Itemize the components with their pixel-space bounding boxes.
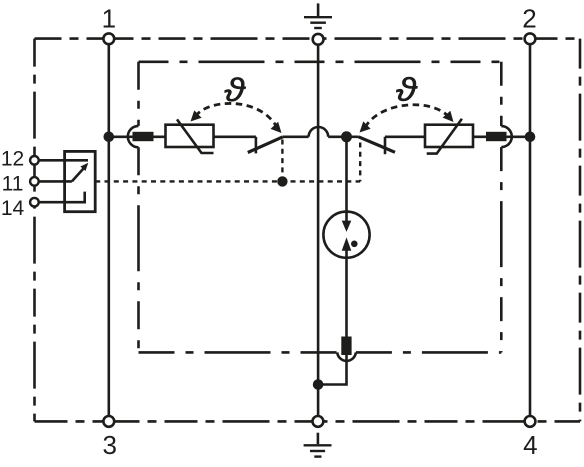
- wire: terminal 12 lead: [39, 159, 88, 162]
- wire: centre earth line from top terminal to bottom terminal: [317, 44, 320, 421]
- thermal fuse element right (black rectangle): [486, 132, 507, 141]
- wire: gas discharge tube branch, node down to circle: [345, 137, 348, 226]
- theta arc right (dashed): [365, 105, 449, 128]
- wire: terminal 2 to terminal 4 vertical line: [529, 39, 532, 421]
- gas discharge tube gas-filled dot: [351, 241, 358, 248]
- thermal disconnector switch right: blade: [359, 137, 396, 153]
- gas discharge tube upper electrode arrow: [342, 221, 352, 232]
- node: junction phase wire / gas discharge tube branch: [341, 131, 352, 142]
- theta arc left (dashed): [196, 103, 277, 126]
- svg-text:14: 14: [1, 197, 25, 220]
- varistor RV2 diagonal stroke: [427, 119, 462, 154]
- arrowhead: right arc onto right blade: [356, 121, 371, 136]
- node: junction earth line / gas discharge tube branch: [313, 379, 324, 390]
- gas discharge tube / spark gap circle: [323, 212, 369, 258]
- terminal 4 circle: [525, 416, 536, 427]
- bottom earth symbol below frame: [317, 433, 320, 445]
- node: junction of dashed sensing lines: [277, 176, 287, 186]
- wire: right border line hop around phase wire: [501, 126, 512, 147]
- wire: hop of phase wire over centre earth line: [309, 127, 329, 137]
- terminal 3 circle: [103, 416, 114, 427]
- top earth terminal circle: [313, 34, 324, 45]
- top earth symbol above frame: [317, 3, 320, 16]
- svg-text:3: 3: [102, 430, 116, 460]
- protection module boundary (inner dash-dot box): [139, 62, 502, 353]
- terminal 2 circle: [525, 33, 536, 44]
- svg-text:4: 4: [523, 430, 537, 460]
- node: junction terminal 1 line / phase wire: [104, 132, 115, 143]
- wire: bottom border line hop around earth branch wire: [337, 352, 356, 360]
- wire: terminal 11 lead: [39, 180, 72, 183]
- wire: left branch horizontal, terminal 1 node to varistor: [109, 136, 166, 139]
- bottom earth terminal circle: [313, 416, 324, 427]
- varistor RV1 diagonal stroke: [177, 119, 214, 153]
- wire: node to right blade pivot: [347, 136, 359, 139]
- arrowhead: left arc onto varistor 1: [187, 110, 202, 125]
- wire: right disconnector fixed contact to varistor 2: [385, 136, 425, 139]
- dashed thermal sensing line: right blade to signal bus: [359, 143, 361, 182]
- label: theta symbol left thermal disconnect: [225, 77, 246, 101]
- svg-text:11: 11: [2, 172, 24, 195]
- thermal disconnector switch left: fixed contact tick: [255, 137, 258, 154]
- wire: hop to node at gas discharge tube branch: [328, 136, 346, 139]
- node: junction terminal 2 line / phase wire: [525, 132, 536, 143]
- wire: varistor 1 to disconnector fixed contact: [214, 136, 256, 139]
- svg-text:12: 12: [1, 148, 24, 171]
- varistor RV2 body: [425, 125, 473, 147]
- changeover contact blade 11-12: [72, 166, 86, 181]
- arrowhead: changeover blade tip: [80, 161, 90, 171]
- svg-text:2: 2: [522, 4, 536, 34]
- svg-text:1: 1: [102, 4, 116, 34]
- thermal fuse element left (black rectangle): [133, 132, 154, 141]
- wire: left blade pivot to centre hop: [283, 136, 309, 139]
- arrowhead: right arc onto varistor 2: [443, 111, 458, 126]
- outer device enclosure boundary (dash-dot frame): [35, 39, 581, 422]
- remote contact terminal 14 circle: [30, 198, 39, 207]
- remote contact terminal 12 circle: [30, 156, 39, 165]
- thermal disconnector switch left: blade: [248, 137, 283, 153]
- wire: terminal 14 lead with open contact stub: [39, 192, 85, 203]
- dashed thermal sensing bus to remote contact box: [95, 180, 360, 182]
- terminal 1 circle: [103, 33, 114, 44]
- wire: terminal 1 to terminal 3 vertical line: [108, 39, 111, 421]
- dashed thermal sensing line: left blade to signal bus: [281, 140, 283, 182]
- thermal fuse element bottom (black rectangle): [341, 337, 351, 356]
- remote contact terminal 11 circle: [30, 177, 39, 186]
- label: theta symbol right thermal disconnect: [396, 77, 417, 101]
- varistor RV1 body: [166, 125, 214, 147]
- thermal disconnector switch right: fixed contact tick: [384, 137, 387, 154]
- arrowhead: left arc onto left blade: [271, 122, 286, 137]
- wire: left border line hop around phase wire: [128, 126, 139, 147]
- gas discharge tube lower electrode arrow: [342, 237, 352, 250]
- wire: varistor 2 to terminal 2 node: [473, 136, 530, 139]
- remote signalling contact box: [65, 151, 96, 211]
- wire: gas discharge tube to earth node: [318, 244, 346, 385]
